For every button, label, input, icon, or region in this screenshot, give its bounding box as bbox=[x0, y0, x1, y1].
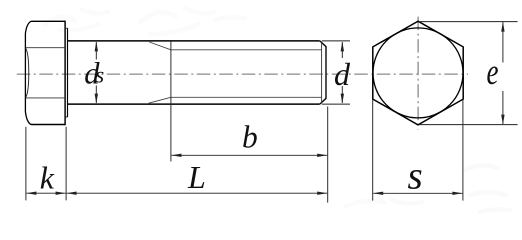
svg-text:e: e bbox=[487, 52, 499, 93]
svg-text:L: L bbox=[187, 159, 206, 195]
svg-text:s: s bbox=[95, 63, 104, 88]
svg-text:d: d bbox=[334, 56, 351, 92]
svg-text:s: s bbox=[408, 155, 423, 198]
svg-text:k: k bbox=[40, 159, 55, 195]
svg-text:b: b bbox=[242, 119, 258, 154]
